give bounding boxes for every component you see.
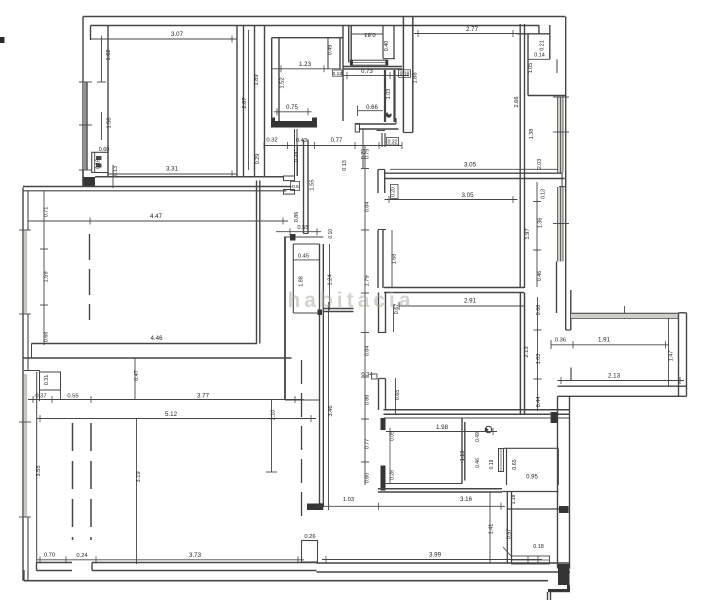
label 0.09 [390, 431, 396, 483]
svg-text:1.62: 1.62 [106, 49, 112, 60]
label 0.68 [536, 305, 542, 316]
label 0.65 rot [395, 390, 401, 401]
dimension col x44 [40, 191, 48, 345]
label 1.59 [44, 271, 50, 282]
svg-text:0.46: 0.46 [537, 271, 543, 282]
svg-text:0.60: 0.60 [365, 473, 371, 484]
svg-text:3.07: 3.07 [171, 31, 184, 38]
wall inner right upper [0, 0, 1, 1]
wall 291 right fill [520, 293, 524, 415]
svg-text:0.60: 0.60 [99, 147, 110, 153]
svg-text:1.98: 1.98 [436, 424, 449, 431]
svg-text:0.55: 0.55 [297, 225, 308, 231]
svg-text:0.24: 0.24 [76, 553, 88, 559]
label 0.13 mid [342, 160, 348, 171]
closet room1 box [92, 152, 108, 172]
wall y508 band [507, 508, 559, 510]
wall pairB bottom line [285, 399, 320, 401]
dimension line 3.31 [108, 171, 237, 178]
label 0.71 [44, 207, 50, 218]
dimension line 1.91 [551, 340, 669, 349]
label 2.13 ext [608, 373, 621, 380]
svg-text:1.91: 1.91 [598, 337, 611, 344]
label 0.16 [95, 159, 101, 169]
label 2.03 [537, 159, 543, 170]
wall corner fill top-left step [83, 177, 95, 187]
label 0.13 [113, 165, 119, 188]
door circle [386, 112, 392, 118]
svg-text:2.03: 2.03 [537, 159, 543, 170]
dimension 178 [0, 0, 1, 1]
label 0.75 col [365, 149, 371, 160]
window extension hatch [571, 314, 678, 318]
wall vestibule top [272, 37, 343, 39]
wall 305 pier fill [378, 170, 385, 194]
svg-text:0.65: 0.65 [395, 390, 401, 401]
svg-text:0.26: 0.26 [304, 534, 315, 540]
wall room1 right pair [237, 26, 244, 177]
svg-text:1.88: 1.88 [299, 276, 305, 287]
svg-text:0.31: 0.31 [44, 375, 50, 386]
svg-text:0.84: 0.84 [365, 346, 371, 357]
wall 291 left upper fill [379, 293, 386, 334]
step wall y370 [24, 371, 40, 563]
dimension row y418 [37, 415, 317, 422]
wall bottom inner pair left [37, 563, 73, 571]
dimension 198 [386, 428, 497, 435]
svg-text:0.40: 0.40 [384, 41, 390, 52]
label 0.84 col a [365, 202, 371, 213]
label 0.55 [297, 225, 308, 231]
label 0.32 b [387, 138, 399, 146]
dimension line 0.66 [358, 106, 383, 117]
label 1.03 strip [536, 354, 542, 365]
wall vestibule right [328, 26, 343, 122]
label 0.46 bath [475, 458, 481, 468]
svg-text:0.55: 0.55 [67, 394, 78, 400]
label 0.6 box [291, 182, 300, 191]
label 0.55 b [67, 394, 78, 400]
label 0.18 d [533, 544, 544, 550]
wall 291 bottom band [384, 410, 571, 418]
tick bottom center [0, 0, 1, 1]
svg-text:0.10: 0.10 [328, 229, 334, 239]
wall room2 bottom top line [32, 343, 258, 345]
svg-text:0.88: 0.88 [365, 395, 371, 406]
label 1.24 [328, 274, 334, 286]
svg-text:1.05: 1.05 [528, 63, 534, 74]
svg-text:0.77: 0.77 [331, 138, 343, 144]
wall x505 vertical [507, 492, 511, 564]
wall x256-259 vertical pair [257, 181, 260, 344]
label 1.55 [310, 179, 316, 190]
label 5.12 [165, 411, 178, 418]
svg-text:0.13: 0.13 [541, 189, 547, 199]
room 095 right [557, 448, 559, 485]
wall bottom inner pair mid [92, 563, 317, 571]
wall vestibule left pair [272, 38, 279, 121]
svg-text:0.75: 0.75 [286, 105, 298, 111]
window left-lower [24, 374, 28, 517]
svg-text:0.19: 0.19 [489, 459, 495, 469]
wall bath partition [462, 418, 465, 484]
svg-text:1.47: 1.47 [669, 351, 675, 362]
svg-text:0.70: 0.70 [44, 553, 55, 559]
label 0.46 c [537, 271, 543, 282]
label 2.91 [464, 298, 477, 305]
label 0.73 [361, 69, 373, 75]
svg-text:0.37: 0.37 [35, 394, 46, 400]
label 0.75 rot [361, 149, 367, 160]
wall extension junction pair [566, 290, 571, 330]
dimension 399 [322, 556, 542, 563]
label 0.20 boxed rot [391, 185, 399, 199]
wall shaft left line [254, 26, 256, 177]
wall outer step left [82, 170, 84, 187]
label 0.57 [507, 529, 513, 540]
label 2.13 rot mid [524, 346, 530, 357]
svg-text:0.28: 0.28 [390, 470, 396, 480]
bath circle [485, 426, 492, 432]
label 1.79 [365, 275, 371, 286]
svg-text:0.95: 0.95 [526, 475, 538, 481]
svg-text:1.03: 1.03 [343, 497, 354, 503]
svg-text:2.87: 2.87 [242, 97, 248, 108]
label 0.49 [328, 45, 334, 56]
label 2.10 [271, 410, 277, 421]
label 1.97 [525, 228, 531, 239]
svg-text:5.12: 5.12 [165, 411, 178, 418]
door jamb a [284, 176, 295, 194]
svg-text:0.83: 0.83 [364, 31, 375, 37]
wall bottomright corner fill [558, 564, 570, 585]
wall pairA [304, 140, 309, 234]
svg-text:0.57: 0.57 [507, 529, 513, 540]
wall 066 right lines [393, 70, 395, 122]
label 1.03 rot [386, 89, 392, 100]
label 2.87 [242, 30, 249, 170]
svg-text:2.91: 2.91 [464, 298, 477, 305]
corridor band y485 [378, 489, 559, 492]
label 0.65 b [512, 459, 518, 470]
svg-text:2.13: 2.13 [608, 373, 621, 380]
svg-text:1.24: 1.24 [328, 274, 334, 286]
dimension line 0.14 [528, 58, 550, 60]
svg-text:2.66: 2.66 [514, 96, 520, 107]
wall outer left upper [82, 17, 84, 188]
dimension 319 [136, 419, 138, 564]
label 0.34 [361, 372, 377, 379]
svg-text:3.46: 3.46 [328, 405, 334, 416]
wall outer top of room2 [23, 186, 292, 188]
svg-text:0.12: 0.12 [333, 71, 343, 77]
wall bottom left corner vertical [24, 570, 28, 581]
dimension row y399 [28, 390, 304, 403]
label 3.05 a [464, 162, 477, 169]
window left-upper ticks [79, 82, 92, 170]
closet 045 box [293, 244, 319, 313]
wall outer right upper [565, 17, 567, 331]
dimension line 3.07 [91, 36, 238, 43]
wall shaft right line [264, 26, 266, 177]
svg-text:4.47: 4.47 [150, 213, 163, 220]
label 0.24 upper [294, 152, 300, 163]
window left-upper second line [83, 82, 87, 170]
door leaf bath [499, 449, 504, 472]
wall bottom outer line [24, 580, 548, 582]
svg-text:0.20: 0.20 [391, 187, 397, 197]
label 0.18 boxed [399, 70, 411, 78]
svg-text:1.03: 1.03 [386, 89, 392, 100]
dimension line 0.67 [393, 305, 395, 333]
svg-text:1.52: 1.52 [280, 77, 286, 88]
svg-text:0.09: 0.09 [390, 431, 396, 441]
label 2.77 [466, 26, 479, 33]
label 1.38 win [529, 129, 535, 140]
svg-text:habitacia: habitacia [287, 289, 414, 312]
label 1.88 rot [413, 72, 419, 83]
label 0.75 upper [286, 105, 298, 111]
dimension line 3.05 b [385, 196, 518, 203]
watermark bottom fragment [0, 0, 1, 1]
svg-text:1.59: 1.59 [44, 271, 50, 282]
svg-text:1.36: 1.36 [538, 218, 544, 229]
label 0.26 [304, 534, 315, 540]
dimension line 1.68 [391, 230, 393, 288]
label 0.77 row [331, 138, 343, 144]
dimension col right strip [534, 297, 542, 411]
wall band below vestibule left [0, 0, 1, 1]
window extension top [571, 314, 679, 319]
label 0.44 [536, 397, 542, 408]
label 1.05 [528, 63, 534, 74]
label 3.16 [460, 496, 473, 503]
wall pairB [285, 234, 296, 400]
label 1.98 [436, 424, 449, 431]
svg-text:0.86: 0.86 [294, 212, 300, 223]
label 4.47 [150, 213, 163, 220]
svg-text:1.58: 1.58 [107, 117, 113, 128]
wall outer left main [22, 188, 24, 581]
label 0.10 [328, 229, 334, 239]
wall room1 left partition [107, 26, 109, 177]
svg-text:1.89: 1.89 [254, 74, 260, 85]
label 0.68 left [44, 332, 50, 343]
label 0.12 boxed [333, 70, 343, 77]
label 0.49 bath [475, 432, 481, 442]
svg-text:1.88: 1.88 [413, 72, 419, 83]
svg-text:1.41: 1.41 [489, 524, 495, 535]
wall inner left segs [27, 191, 29, 578]
label 0.86 [294, 212, 300, 223]
svg-text:0.13: 0.13 [342, 160, 348, 171]
wall room2 bottom left cap [31, 344, 33, 359]
label 1.58 [107, 117, 113, 128]
svg-text:0.68: 0.68 [536, 305, 542, 316]
label 1.88 b [299, 276, 305, 287]
svg-text:0.75: 0.75 [365, 149, 371, 160]
dashed line room3 right [301, 360, 303, 523]
wall 197room top band [559, 173, 566, 188]
dimension line 1.47 [668, 318, 670, 387]
svg-text:0.29: 0.29 [255, 154, 261, 165]
label 1.47 [669, 351, 675, 362]
dimension line 1.88 [0, 0, 1, 1]
dimension line 1.97 col [533, 182, 541, 287]
wall inner left upper [90, 26, 92, 41]
svg-text:0.71: 0.71 [44, 207, 50, 218]
label 3.19 [136, 471, 142, 482]
label 1.52 [280, 77, 286, 88]
wall topright room right pair [520, 24, 524, 288]
label 3.55 [36, 465, 42, 476]
dimension 124 [329, 244, 331, 310]
window extension separators [575, 306, 658, 319]
room 095 left [506, 448, 508, 485]
label 0.67 [394, 304, 400, 315]
wall extension bottom pair [558, 386, 687, 396]
svg-text:3.31: 3.31 [166, 166, 179, 173]
window right ticks [553, 97, 569, 224]
window left-middle ticks [19, 230, 31, 314]
wall 168 cap [378, 229, 386, 231]
label 1.18 [511, 494, 517, 504]
wall 066 bottom band [356, 118, 399, 129]
dimension line 0.65 [395, 378, 397, 414]
label 0.60 col [365, 473, 371, 484]
label 0.31 [44, 375, 50, 386]
wall extension right pair [679, 313, 687, 397]
svg-text:4.46: 4.46 [150, 335, 163, 342]
watermark habitacia [287, 289, 414, 312]
svg-text:3.05: 3.05 [461, 192, 474, 199]
dimension line 1.62/1.58 vertical [97, 39, 106, 140]
label 0.05 [0, 0, 1, 1]
window sill top-center [350, 60, 387, 65]
svg-text:2.13: 2.13 [524, 346, 530, 357]
dimension 103 line [317, 503, 505, 510]
window left-middle [24, 230, 28, 314]
label 0.28 [390, 470, 396, 480]
dimension line 0.75 upper [274, 108, 312, 115]
svg-text:0.18: 0.18 [533, 544, 544, 550]
svg-text:3.77: 3.77 [197, 393, 210, 400]
svg-text:2.10: 2.10 [271, 410, 277, 421]
svg-text:1.68: 1.68 [392, 254, 398, 265]
svg-text:0.73: 0.73 [361, 69, 373, 75]
label 0.70 [44, 553, 55, 559]
wall 291 left lower fill [379, 379, 386, 411]
label 0.13 c [541, 189, 547, 199]
wall 291 top band [384, 288, 524, 293]
svg-text:0.65: 0.65 [512, 459, 518, 470]
label 0.37 [35, 394, 46, 400]
box 026 [302, 541, 318, 563]
svg-text:0.13: 0.13 [113, 166, 119, 176]
label 1.62 [106, 49, 112, 60]
label 0.21 [540, 40, 546, 51]
wall protrusion bottom [343, 67, 402, 70]
label 1.41 [489, 524, 495, 535]
svg-text:0.14: 0.14 [534, 53, 545, 59]
dimension 316 [0, 0, 1, 1]
wall right fill seg [556, 262, 558, 314]
corridor box [276, 228, 323, 237]
dimension 346 [328, 302, 330, 510]
svg-text:0.16: 0.16 [95, 159, 101, 169]
svg-text:0.68: 0.68 [44, 332, 50, 343]
window right outer [558, 97, 564, 262]
door symbol bottom [503, 547, 550, 564]
label 0.14 [534, 53, 545, 59]
dimension line 1.23 [272, 65, 341, 72]
svg-text:1.23: 1.23 [299, 61, 312, 68]
svg-text:1.38: 1.38 [529, 129, 535, 140]
label 4.46 [150, 335, 163, 342]
label 0.45 [298, 253, 309, 259]
wall bath left jamb lower [381, 466, 386, 491]
wall pairC corner [307, 504, 323, 511]
svg-text:3.19: 3.19 [136, 471, 142, 482]
label 1.13 [460, 451, 466, 462]
svg-text:0.66: 0.66 [366, 105, 378, 111]
svg-text:1.03: 1.03 [536, 354, 542, 365]
label 0.36 [555, 338, 566, 344]
svg-text:0.18: 0.18 [400, 72, 410, 78]
wall band below vestibule right [295, 129, 298, 176]
wall exit step fill [548, 585, 570, 592]
dimension 141 [489, 492, 491, 563]
svg-text:0.45: 0.45 [298, 253, 309, 259]
svg-text:3.99: 3.99 [429, 552, 442, 559]
svg-text:0.44: 0.44 [536, 397, 542, 408]
svg-text:0.49: 0.49 [328, 45, 334, 56]
dimension 0.24 line [297, 145, 299, 176]
dimension row y562 [37, 556, 304, 563]
label 0.29 [255, 154, 261, 165]
wall bath left jamb upper [381, 418, 386, 430]
wall stub right [559, 506, 569, 513]
wall bottom right band [317, 563, 571, 572]
wall outer top [83, 16, 565, 18]
label 3.99 [429, 552, 442, 559]
wall exit step lines [548, 592, 551, 600]
dimension 045 [293, 259, 319, 261]
wall 066 step [355, 124, 385, 169]
window left-lower ticks [19, 422, 31, 517]
wall room2 bottom bottom line [23, 357, 292, 359]
label 0.95 [526, 475, 538, 481]
wall right lower pair [558, 396, 570, 568]
wall column top-right fill [403, 17, 412, 133]
wall vestibule bottom band [271, 118, 317, 128]
svg-text:0.6: 0.6 [292, 184, 299, 190]
label 0.40 [384, 41, 390, 52]
wall pairC [318, 244, 324, 507]
label 0.43 [296, 138, 307, 144]
dimension row y145 [264, 142, 402, 149]
label 3.31 [166, 166, 179, 173]
label 2.66 [514, 96, 520, 107]
label 1.91 [598, 337, 611, 344]
dimension 210 [266, 400, 277, 472]
label 0.88 col [365, 395, 371, 406]
svg-text:0.77: 0.77 [365, 439, 371, 450]
label 0.32 a [266, 138, 277, 144]
dimension line 2.91 [399, 302, 524, 310]
room 095 top [386, 448, 559, 483]
wall 168 fill [378, 230, 383, 288]
